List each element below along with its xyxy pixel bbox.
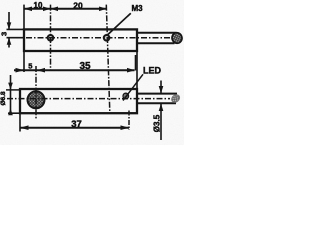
svg-text:5: 5: [28, 62, 32, 71]
svg-text:LED: LED: [143, 66, 162, 76]
svg-text:Ø3.5: Ø3.5: [153, 114, 162, 132]
svg-text:37: 37: [71, 119, 82, 130]
svg-text:20: 20: [73, 0, 83, 10]
svg-text:35: 35: [79, 61, 91, 72]
svg-text:3: 3: [0, 32, 8, 36]
svg-text:10: 10: [34, 1, 43, 10]
svg-text:Ø6.8: Ø6.8: [0, 91, 7, 105]
svg-text:M3: M3: [132, 4, 144, 13]
